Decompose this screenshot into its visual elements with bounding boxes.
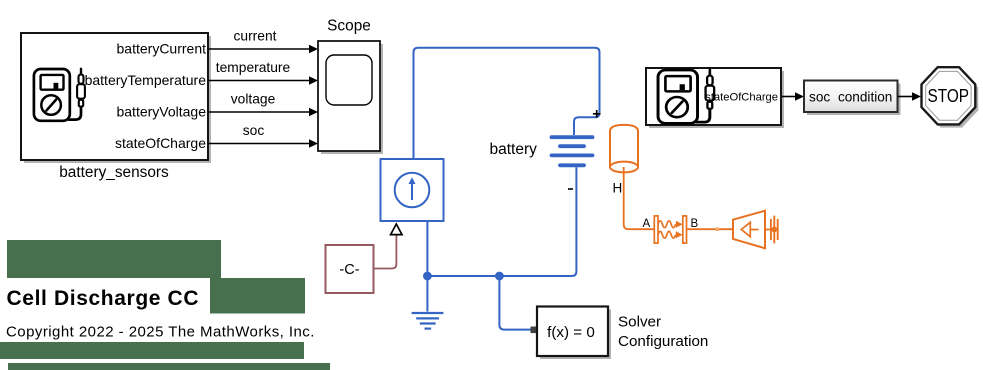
svg-text:H: H	[613, 181, 623, 196]
annotation green rect 4	[8, 363, 330, 370]
solver block shadow	[540, 310, 611, 360]
solver port square	[531, 327, 538, 334]
battery_sensors block shadow	[24, 36, 211, 163]
soc sensor block shadow	[649, 71, 784, 128]
wire current	[209, 48, 310, 50]
svg-text:B: B	[691, 218, 699, 230]
thermal mass cylinder	[610, 125, 638, 167]
svg-text:soc condition: soc condition	[809, 89, 892, 104]
Scope block shadow	[321, 44, 383, 154]
svg-text:Configuration: Configuration	[618, 333, 708, 350]
plus sign	[593, 110, 601, 118]
annotation green rect 3	[0, 342, 304, 359]
svg-text:temperature: temperature	[216, 60, 291, 75]
wire battery minus to bus	[427, 167, 576, 276]
conduction block	[654, 216, 686, 243]
solver configuration block f(x)=0	[537, 307, 608, 357]
STOP block octagon	[922, 67, 976, 124]
svg-text:soc: soc	[243, 123, 265, 138]
wire -C- to port	[374, 236, 397, 269]
svg-text:Copyright 2022 - 2025 The Math: Copyright 2022 - 2025 The MathWorks, Inc…	[6, 324, 315, 341]
svg-text:Cell Discharge CC: Cell Discharge CC	[7, 287, 200, 310]
wire conduction to convection	[687, 228, 734, 230]
convection block	[733, 211, 765, 249]
annotation green rect 1	[7, 240, 221, 278]
wire to ground	[426, 276, 428, 312]
ground symbol	[412, 313, 444, 329]
Scope block	[318, 41, 380, 151]
svg-text:battery: battery	[490, 141, 538, 158]
junction node 2	[495, 272, 504, 281]
wire soc	[209, 143, 310, 145]
wire sensor to soc condition	[782, 96, 796, 98]
svg-text:battery_sensors: battery_sensors	[59, 164, 169, 181]
physical signal port triangle	[391, 224, 402, 235]
Scope screen	[326, 55, 372, 105]
svg-text:batteryVoltage: batteryVoltage	[116, 104, 206, 120]
wire voltage	[209, 111, 310, 113]
battery_sensors block	[21, 33, 208, 160]
wire current source out	[426, 221, 428, 276]
svg-text:Scope: Scope	[327, 17, 371, 34]
wire current source to battery plus	[414, 48, 600, 159]
svg-text:current: current	[234, 29, 277, 44]
soc sensor multimeter icon	[658, 70, 714, 124]
svg-text:stateOfCharge: stateOfCharge	[705, 91, 778, 103]
STOP block shadow	[925, 70, 979, 127]
port marker	[716, 227, 720, 231]
wire temperature	[209, 80, 310, 82]
soc condition block	[804, 81, 898, 113]
wire to solver	[499, 276, 530, 330]
svg-text:f(x) = 0: f(x) = 0	[547, 324, 595, 341]
svg-text:stateOfCharge: stateOfCharge	[115, 135, 206, 151]
annotation green rect 2	[210, 278, 305, 314]
svg-text:Solver: Solver	[618, 314, 661, 331]
battery_sensors multimeter icon	[34, 69, 85, 121]
thermal port bars	[771, 216, 778, 244]
wire cylinder to conduction	[624, 167, 655, 229]
minus sign	[568, 188, 573, 190]
wire soc condition to STOP	[898, 96, 913, 98]
svg-text:voltage: voltage	[231, 92, 276, 107]
battery B1	[552, 137, 593, 165]
soc condition block shadow	[807, 84, 901, 116]
svg-text:-C-: -C-	[339, 262, 359, 278]
svg-text:A: A	[643, 218, 651, 230]
junction node 1	[423, 272, 432, 281]
constant block -C-	[326, 245, 374, 293]
current source block U1	[381, 159, 444, 221]
soc sensor block	[646, 68, 781, 125]
svg-text:STOP: STOP	[928, 86, 970, 106]
svg-text:batteryCurrent: batteryCurrent	[117, 41, 207, 57]
svg-text:batteryTemperature: batteryTemperature	[85, 72, 207, 88]
wire convection to bars	[765, 229, 770, 231]
